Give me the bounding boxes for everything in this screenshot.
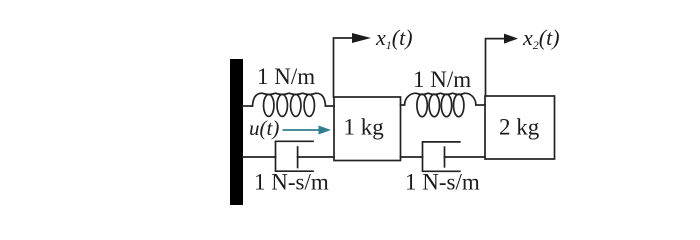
spring K1 top arcs xyxy=(253,93,326,106)
wire mass M1 to spring K2 xyxy=(401,104,405,106)
spring K2 top arcs xyxy=(405,93,477,105)
mass M1 box xyxy=(334,97,401,161)
svg-text:1 kg: 1 kg xyxy=(344,115,385,140)
svg-text:u(t): u(t) xyxy=(249,116,279,140)
x2 arrowhead xyxy=(504,34,518,44)
mass M2 box xyxy=(485,96,555,159)
damper B2 piston xyxy=(444,147,446,167)
spring K1 loop 3 xyxy=(291,94,301,116)
spring K2 loop 2 xyxy=(429,94,439,117)
wire wall to spring K1 xyxy=(243,105,253,107)
svg-text:x2(t): x2(t) xyxy=(522,25,560,52)
wall xyxy=(230,59,243,205)
x1 bracket wire xyxy=(334,38,353,97)
spring K2 loop 4 xyxy=(454,94,464,117)
svg-text:2 kg: 2 kg xyxy=(499,115,540,140)
spring K2 loop 1 xyxy=(417,94,427,117)
damper B2 rod to mass M2 xyxy=(445,156,486,158)
damper B1 rod to mass M1 xyxy=(298,156,334,158)
x1 arrowhead xyxy=(352,33,371,43)
wire spring K2 to mass M2 xyxy=(476,104,485,106)
svg-text:1 N-s/m: 1 N-s/m xyxy=(405,170,480,195)
damper B1 piston xyxy=(297,147,299,168)
svg-text:1 N-s/m: 1 N-s/m xyxy=(254,170,329,195)
damper B1 cylinder xyxy=(276,141,314,171)
damper B2 cylinder xyxy=(423,142,460,171)
wire wall to damper B1 xyxy=(243,156,276,158)
svg-text:x1(t): x1(t) xyxy=(375,25,413,52)
svg-text:1 N/m: 1 N/m xyxy=(257,64,315,89)
spring K2 loop 3 xyxy=(441,94,451,117)
spring K1 loop 1 xyxy=(264,94,274,116)
spring K1 loop 4 xyxy=(304,94,314,116)
wire mass M1 to damper B2 xyxy=(401,156,423,158)
spring K1 loop 2 xyxy=(277,94,287,116)
x2 bracket wire xyxy=(486,39,505,96)
svg-text:1 N/m: 1 N/m xyxy=(413,67,471,92)
input force arrow u(t) xyxy=(283,129,320,131)
wire spring K1 to mass M1 xyxy=(326,105,335,107)
